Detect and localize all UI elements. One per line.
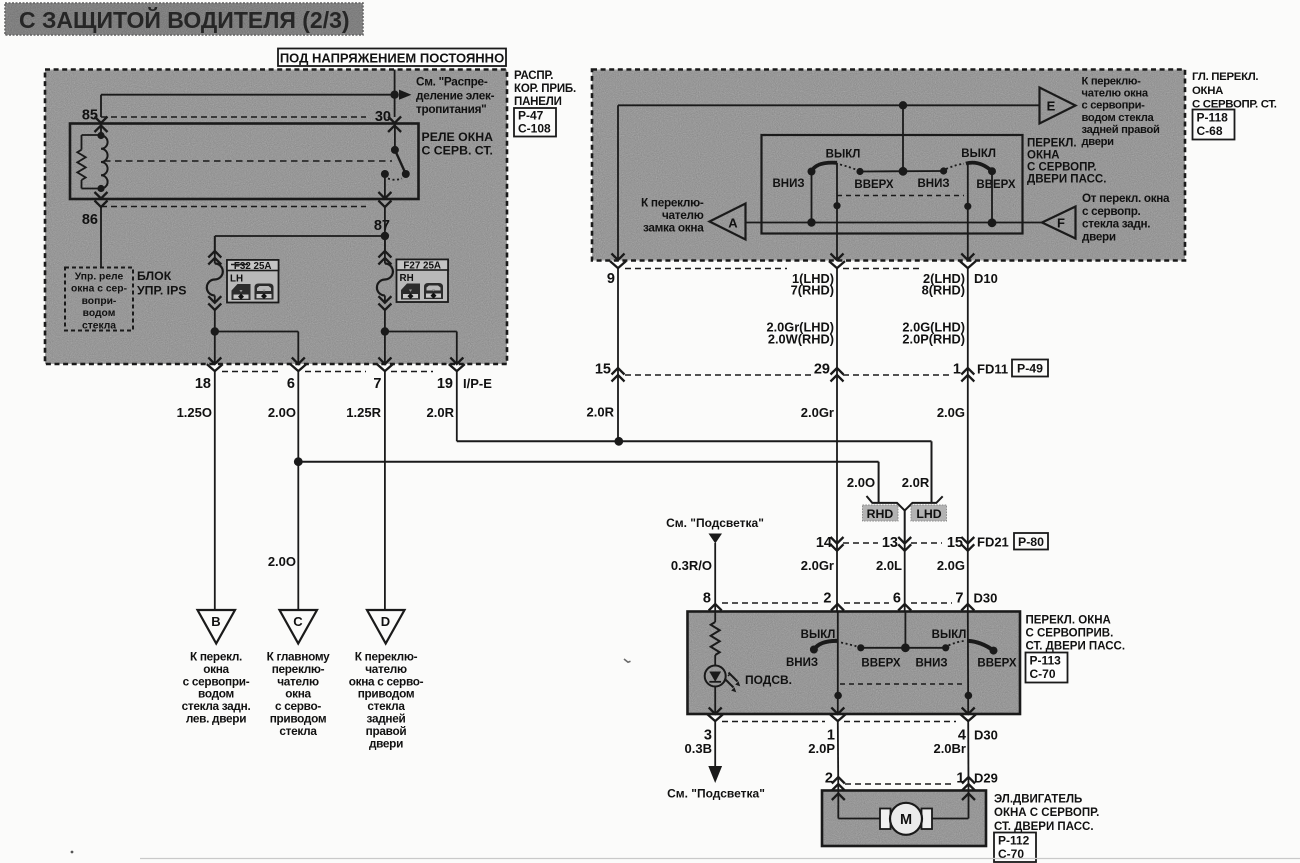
pivot drop to A-F line [807, 172, 815, 227]
svg-text:8(RHD): 8(RHD) [922, 283, 965, 298]
connector triangle B [198, 610, 236, 644]
svg-text:6: 6 [287, 376, 295, 392]
bus wire y=462 to RHD [298, 462, 878, 503]
svg-text:От перекл. окна: От перекл. окна [1082, 192, 1170, 205]
RHD / LHD selector merge [847, 475, 947, 543]
wire 6 stub [904, 612, 906, 648]
svg-text:2.0R: 2.0R [427, 405, 455, 420]
svg-text:ОКНА С СЕРВОПР.: ОКНА С СЕРВОПР. [994, 807, 1099, 819]
connector ref box P-112 / C-70 [994, 833, 1036, 863]
svg-text:85: 85 [82, 108, 98, 124]
svg-text:ВНИЗ: ВНИЗ [917, 178, 949, 190]
svg-text:D10: D10 [974, 271, 998, 286]
master switch right contacts [917, 148, 1015, 191]
wire 1.25R (pin 7 to D) [346, 372, 385, 610]
fuse F27 25A box [397, 260, 449, 303]
svg-text:ВЫКЛ: ВЫКЛ [801, 629, 836, 641]
scan speck [624, 659, 631, 662]
wire 2.0Br [933, 722, 968, 791]
left box bottom pin row 18 6 7 19 I/P-E [195, 358, 492, 393]
svg-text:ОКНА: ОКНА [1027, 150, 1060, 162]
svg-text:0.3B: 0.3B [685, 741, 712, 756]
destination text B [182, 650, 251, 726]
pin row D30 bottom 3 1 4 [704, 708, 998, 744]
svg-text:деление элек-: деление элек- [416, 88, 495, 102]
wire: pin85 riser and top feed [101, 70, 395, 118]
master switch middle link [860, 105, 947, 175]
wire E-blade drop [988, 171, 997, 227]
svg-text:ПАНЕЛИ: ПАНЕЛИ [514, 96, 562, 108]
connector triangle F [1042, 207, 1076, 239]
svg-text:2.0Gr: 2.0Gr [801, 558, 834, 573]
svg-text:2.0R: 2.0R [902, 475, 930, 490]
right gray box (master window switch) [592, 70, 1185, 261]
label БЛОК УПР. IPS [137, 269, 187, 298]
bus wire y=441 to LHD [457, 437, 932, 503]
relay coil [97, 124, 107, 193]
svg-text:ПЕРЕКЛ. ОКНА: ПЕРЕКЛ. ОКНА [1026, 615, 1111, 627]
relay pin row top (85 / 30) [82, 108, 401, 133]
destination text A [641, 195, 704, 234]
door switch left contacts [786, 629, 901, 670]
svg-text:6: 6 [893, 591, 901, 607]
svg-text:двери: двери [1082, 136, 1115, 148]
svg-text:P-49: P-49 [1017, 362, 1043, 376]
relay pin row bottom (86 / 87) [82, 192, 392, 234]
label box: ПОД НАПРЯЖЕНИЕМ ПОСТОЯННО [278, 49, 506, 67]
svg-text:тропитания": тропитания" [416, 102, 486, 116]
svg-text:8: 8 [703, 591, 711, 607]
wire 2.0P [808, 722, 838, 791]
svg-text:ПЕРЕКЛ.: ПЕРЕКЛ. [1027, 138, 1077, 150]
svg-text:Упр. реле: Упр. реле [75, 272, 124, 283]
svg-text:С ЗАЩИТОЙ ВОДИТЕЛЯ (2/3): С ЗАЩИТОЙ ВОДИТЕЛЯ (2/3) [19, 6, 350, 33]
svg-text:2.0P: 2.0P [808, 741, 835, 756]
svg-text:2.0G: 2.0G [937, 405, 965, 420]
svg-text:D29: D29 [974, 771, 998, 786]
fuse F32 25A wire [207, 236, 223, 332]
svg-text:M: M [900, 812, 912, 828]
wire 0.3B to illumination [667, 722, 765, 801]
svg-text:A: A [728, 216, 738, 231]
passenger door switch gray box [688, 612, 1021, 715]
relay label [422, 130, 494, 158]
illumination feed arrow (top) [666, 516, 764, 612]
svg-text:ГЛ. ПЕРЕКЛ.: ГЛ. ПЕРЕКЛ. [1192, 71, 1258, 83]
svg-text:P-113: P-113 [1030, 654, 1062, 668]
connector triangle E [1040, 88, 1076, 124]
wire 2.0L [876, 543, 905, 612]
relay contact (30-87) [381, 124, 410, 200]
motor labels [994, 794, 1099, 833]
svg-text:ВВЕРХ: ВВЕРХ [977, 658, 1017, 670]
wire 1(LHD)/7(RHD) [833, 163, 840, 261]
destination text E [1082, 76, 1160, 149]
svg-text:RHD: RHD [867, 507, 894, 521]
svg-text:ВНИЗ: ВНИЗ [915, 658, 947, 670]
wire 2.0G(LHD)/2.0P(RHD) [902, 269, 967, 376]
svg-text:лев. двери: лев. двери [186, 712, 246, 726]
door switch middle link [861, 643, 950, 652]
door switch right contacts [915, 629, 1016, 670]
svg-text:РЕЛЕ ОКНА: РЕЛЕ ОКНА [422, 130, 494, 144]
svg-text:14: 14 [816, 535, 832, 551]
svg-text:1.25R: 1.25R [346, 405, 381, 420]
svg-text:E: E [1047, 99, 1056, 114]
scan speck 2 [71, 851, 74, 854]
svg-text:См. "Распре-: См. "Распре- [416, 75, 488, 89]
connector ref box P-118 / C-68 [1193, 110, 1235, 140]
right box pin row 9 / 1(LHD)7(RHD) / 2(LHD)8(RHD) D10 [607, 254, 998, 298]
svg-text:водом: водом [83, 308, 116, 319]
svg-text:2: 2 [825, 771, 833, 787]
connector ref box P-113 / C-70 [1026, 653, 1068, 683]
svg-text:стекла: стекла [82, 320, 116, 331]
relay box РЕЛЕ ОКНА С СЕРВ. СТ. [70, 124, 419, 200]
svg-text:29: 29 [814, 362, 830, 378]
svg-text:ОКНА: ОКНА [1192, 85, 1223, 97]
connector ref box P-47 / C-108 [514, 108, 556, 137]
svg-text:D: D [381, 614, 390, 629]
svg-text:2: 2 [823, 591, 831, 607]
svg-text:1: 1 [956, 771, 964, 787]
svg-text:LH: LH [230, 274, 243, 285]
svg-text:P-118: P-118 [1197, 111, 1229, 125]
inner switch box (master, passenger section) [762, 135, 1023, 234]
svg-text:2.0L: 2.0L [876, 558, 902, 573]
svg-text:ВЫКЛ: ВЫКЛ [932, 629, 967, 641]
svg-text:двери: двери [369, 736, 403, 750]
svg-text:2.0O: 2.0O [268, 405, 296, 420]
svg-text:УПР. IPS: УПР. IPS [137, 284, 187, 298]
svg-text:F27 25A: F27 25A [403, 261, 441, 272]
svg-text:C-70: C-70 [1030, 667, 1056, 681]
relay internal dashed link [104, 160, 392, 162]
svg-text:C-68: C-68 [1197, 124, 1223, 138]
connector triangle C [280, 610, 318, 644]
svg-text:РАСПР.: РАСПР. [514, 70, 553, 82]
svg-text:с сервопри-: с сервопри- [1082, 100, 1146, 112]
window motor gray box [822, 791, 986, 847]
svg-text:9: 9 [607, 271, 615, 287]
door switch inner dashed link [840, 683, 964, 685]
illumination resistor [711, 612, 720, 666]
relay coil shunt resistor [77, 135, 101, 189]
svg-text:1.25O: 1.25O [177, 405, 212, 420]
svg-text:ПОДСВ.: ПОДСВ. [745, 673, 792, 687]
svg-text:С СЕРВ. СТ.: С СЕРВ. СТ. [422, 144, 493, 158]
svg-text:ЭЛ.ДВИГАТЕЛЬ: ЭЛ.ДВИГАТЕЛЬ [994, 794, 1082, 806]
svg-text:чателю окна: чателю окна [1082, 88, 1149, 100]
svg-text:18: 18 [195, 376, 211, 392]
wire 2(LHD)/8(RHD) [964, 164, 971, 261]
fuse F27 25A wire [377, 236, 393, 332]
svg-text:7(RHD): 7(RHD) [791, 283, 834, 298]
svg-text:1: 1 [953, 362, 961, 378]
svg-text:задней правой: задней правой [1082, 124, 1160, 136]
svg-text:2.0O: 2.0O [847, 475, 875, 490]
title bar [5, 3, 363, 35]
pin row D30 top 8 2 6 7 [703, 591, 997, 621]
IPS control dashed box [65, 268, 133, 331]
svg-text:СТ. ДВЕРИ ПАСС.: СТ. ДВЕРИ ПАСС. [994, 821, 1094, 833]
svg-text:стекла: стекла [279, 724, 317, 738]
svg-text:вопри-: вопри- [82, 296, 117, 307]
svg-text:двери: двери [1082, 230, 1116, 243]
svg-text:15: 15 [595, 362, 611, 378]
svg-text:БЛОК: БЛОК [137, 269, 172, 283]
svg-text:F: F [1057, 216, 1065, 231]
svg-text:B: B [211, 614, 220, 629]
svg-text:С СЕРВОПР.: С СЕРВОПР. [1027, 162, 1097, 174]
wire 2.0R pin9 down [587, 269, 618, 420]
svg-text:См. "Подсветка": См. "Подсветка" [667, 787, 765, 801]
svg-text:2.0P(RHD): 2.0P(RHD) [902, 332, 965, 347]
connector triangle D [367, 610, 405, 644]
svg-text:ВВЕРХ: ВВЕРХ [976, 179, 1016, 191]
A-F horizontal wire [746, 222, 1043, 224]
svg-text:К переклю-: К переклю- [1082, 76, 1142, 88]
svg-text:P-47: P-47 [518, 109, 544, 123]
svg-text:ВЫКЛ: ВЫКЛ [826, 149, 861, 161]
wire 2.0Gr mid [801, 375, 837, 612]
svg-text:19: 19 [437, 376, 453, 392]
svg-text:замка окна: замка окна [643, 220, 704, 234]
wire 2.0Gr(LHD)/2.0W(RHD) [766, 269, 837, 376]
svg-text:C: C [293, 614, 303, 629]
svg-text:RH: RH [400, 273, 414, 284]
wire 2.0O (pin 6) [268, 372, 303, 610]
wire 86 to IPS block [100, 207, 102, 268]
svg-text:2.0Gr: 2.0Gr [801, 405, 834, 420]
svg-text:2.0R: 2.0R [587, 405, 615, 420]
node: feed junction with arrow to power distribution [390, 90, 411, 100]
svg-text:См. "Подсветка": См. "Подсветка" [666, 516, 764, 530]
svg-text:ВЫКЛ: ВЫКЛ [961, 148, 996, 160]
right box outside label ГЛ. ПЕРЕКЛ. [1192, 71, 1277, 111]
svg-text:стекла задн.: стекла задн. [1082, 218, 1150, 231]
svg-text:2.0W(RHD): 2.0W(RHD) [768, 332, 834, 347]
switch box labels [1026, 615, 1126, 653]
svg-text:D30: D30 [974, 591, 998, 606]
wire 87 to fuse feeds [215, 207, 389, 251]
svg-text:D30: D30 [974, 728, 998, 743]
svg-text:7: 7 [373, 376, 381, 392]
svg-text:P-112: P-112 [998, 834, 1030, 848]
connector row FD21 P-80 [816, 533, 1048, 551]
label РАСПР. КОР. ПРИБ. ПАНЕЛИ [514, 70, 576, 108]
svg-text:2.0Br: 2.0Br [933, 741, 966, 756]
illumination lamp ПОДСВ. [705, 666, 792, 715]
inner switch box label [1027, 138, 1106, 186]
svg-text:13: 13 [882, 535, 898, 551]
motor wires [832, 791, 975, 819]
wire 2.0G mid [937, 375, 968, 612]
svg-text:КОР. ПРИБ.: КОР. ПРИБ. [514, 83, 576, 95]
svg-text:C-108: C-108 [518, 122, 551, 136]
inner box dashed link [837, 195, 964, 197]
svg-text:15: 15 [947, 535, 963, 551]
wire 2-1 through switch [834, 612, 842, 715]
svg-text:ДВЕРИ ПАСС.: ДВЕРИ ПАСС. [1027, 174, 1106, 186]
svg-text:окна с сер-: окна с сер- [71, 284, 128, 295]
svg-text:I/P-E: I/P-E [463, 376, 492, 391]
svg-text:P-80: P-80 [1018, 535, 1044, 549]
svg-text:с сервопр.: с сервопр. [1082, 205, 1141, 218]
fuse output branches [211, 327, 457, 364]
svg-text:87: 87 [374, 218, 390, 234]
master switch left contacts [772, 149, 893, 192]
motor M [880, 803, 932, 835]
connector row FD11 P-49 [595, 360, 1048, 382]
destination text D [349, 650, 424, 751]
svg-text:LHD: LHD [916, 507, 941, 521]
svg-text:ПОД НАПРЯЖЕНИЕМ ПОСТОЯННО: ПОД НАПРЯЖЕНИЕМ ПОСТОЯННО [280, 51, 504, 66]
fuse F32 25A box [227, 260, 279, 303]
connector triangle A [710, 204, 746, 240]
wire 2.0R (pin 19) [427, 372, 457, 442]
svg-text:ВНИЗ: ВНИЗ [786, 657, 818, 669]
left gray box (relay / IPS block) [45, 70, 507, 365]
svg-text:0.3R/O: 0.3R/O [671, 558, 712, 573]
svg-text:ВНИЗ: ВНИЗ [772, 178, 804, 190]
svg-text:ВВЕРХ: ВВЕРХ [854, 179, 894, 191]
svg-text:С СЕРВОПРИВ.: С СЕРВОПРИВ. [1026, 628, 1114, 640]
wire 7-4 through switch [965, 612, 973, 715]
wire 1.25O (pin 18 to B) [177, 372, 215, 610]
note: see power distribution [416, 75, 495, 117]
scan edge line [140, 858, 1300, 860]
svg-text:2.0G: 2.0G [937, 558, 965, 573]
svg-text:водом стекла: водом стекла [1082, 112, 1155, 124]
wire pin9 riser [618, 101, 1040, 260]
wire 2.0R mid (pin15 to bus) [617, 375, 619, 441]
svg-text:86: 86 [82, 212, 98, 228]
svg-text:F32 25A: F32 25A [234, 261, 272, 272]
svg-text:FD11: FD11 [977, 362, 1008, 377]
svg-text:СТ. ДВЕРИ ПАСС.: СТ. ДВЕРИ ПАСС. [1026, 641, 1126, 653]
svg-text:7: 7 [955, 591, 963, 607]
destination text F [1082, 192, 1170, 243]
svg-text:FD21: FD21 [977, 535, 1009, 550]
svg-text:ВВЕРХ: ВВЕРХ [861, 658, 901, 670]
destination text C [267, 650, 330, 738]
svg-text:2.0O: 2.0O [268, 554, 296, 569]
pin row D29 2 1 [825, 771, 998, 791]
